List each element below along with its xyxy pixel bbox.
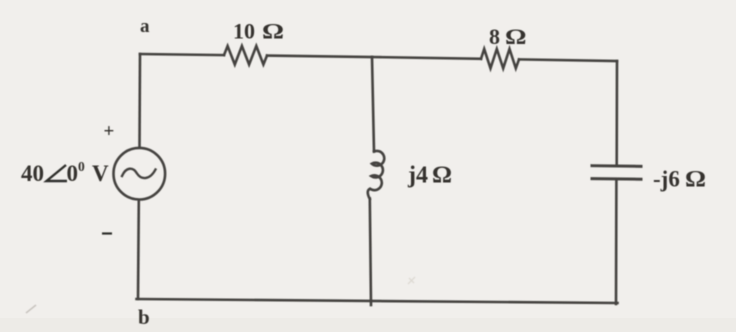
capacitor C -j6ohm top plate bbox=[592, 164, 641, 168]
wire top (junction to 8 ohm resistor) bbox=[372, 57, 481, 59]
resistor R 8ohm zigzag bbox=[481, 49, 519, 68]
svg-text:0: 0 bbox=[78, 159, 85, 174]
svg-text:V: V bbox=[92, 161, 109, 186]
svg-text:-j6: -j6 bbox=[653, 167, 680, 192]
svg-text:0: 0 bbox=[67, 161, 79, 186]
ac voltage source sine symbol bbox=[122, 169, 156, 178]
svg-text:Ω: Ω bbox=[432, 163, 452, 189]
svg-text:a: a bbox=[140, 16, 150, 37]
wire top-left horizontal (node a to 10 ohm resistor) bbox=[140, 54, 224, 55]
svg-text:40: 40 bbox=[21, 161, 44, 186]
svg-text:Ω: Ω bbox=[262, 19, 284, 44]
svg-text:Ω: Ω bbox=[685, 167, 706, 192]
resistor R 10ohm zigzag bbox=[224, 46, 267, 65]
faint scan scratch lower-left bbox=[26, 305, 36, 313]
faint scan mark right of middle branch bbox=[408, 277, 415, 284]
svg-text:10: 10 bbox=[233, 19, 255, 44]
capacitor C -j6ohm bottom plate bbox=[592, 177, 641, 181]
wire right upper (corner down to capacitor) bbox=[615, 61, 618, 165]
wire middle branch lower (inductor down to bottom junction) bbox=[370, 199, 371, 306]
wire right lower (capacitor down to bottom-right corner) bbox=[615, 181, 618, 305]
wire middle branch upper (junction down to inductor) bbox=[372, 57, 374, 152]
source - polarity mark bbox=[102, 232, 112, 234]
angle symbol of source label bbox=[47, 165, 68, 181]
wire bottom (bottom-right corner to node b) bbox=[137, 299, 618, 303]
svg-text:8: 8 bbox=[489, 24, 500, 49]
svg-text:j4: j4 bbox=[407, 163, 428, 189]
wire left upper (node a corner down to source) bbox=[138, 54, 141, 147]
svg-text:Ω: Ω bbox=[505, 24, 527, 49]
svg-text:b: b bbox=[138, 305, 150, 329]
svg-text:+: + bbox=[104, 121, 115, 142]
wire left lower (source down to node b corner) bbox=[137, 200, 140, 299]
inductor L j4ohm coil bbox=[368, 151, 385, 199]
ac voltage source V circle bbox=[114, 148, 166, 200]
wire top-right (8 ohm to top-right corner) bbox=[519, 59, 617, 61]
wire top middle (10 ohm to junction) bbox=[267, 56, 372, 57]
